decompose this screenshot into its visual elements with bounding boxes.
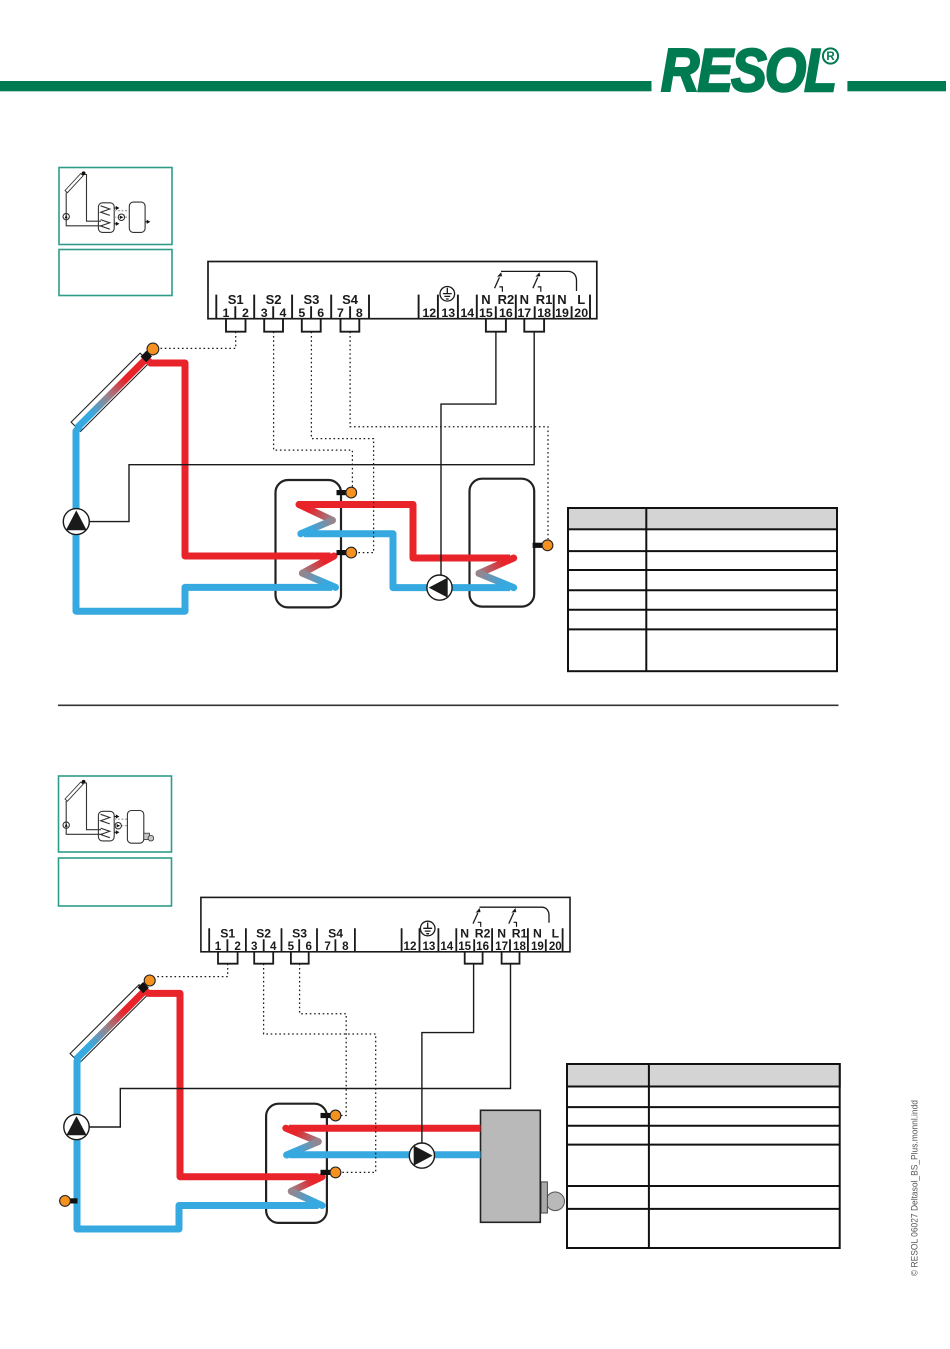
pump R2 loading circuit (bottom system) [409,1143,434,1168]
svg-text:N: N [520,292,529,307]
mini collector (top thumbnail) [65,174,83,193]
svg-text:1: 1 [215,940,222,953]
svg-text:L: L [552,927,560,941]
svg-text:S4: S4 [342,292,359,307]
svg-text:12: 12 [404,940,417,953]
sensor return pipe (bottom system) [70,1198,78,1203]
scheme code box (bottom system, empty) [59,858,172,906]
mini flow pipe (top thumbnail) [84,175,102,222]
thumbnail mini schematic (bottom system) [63,782,154,843]
svg-text:R: R [826,51,835,63]
svg-text:17: 17 [517,306,531,320]
mini tank lower coil (bottom thumbnail) [101,828,110,838]
terminal group labels S1 S2 S3 S4 / N R2 N R1 N L (top strip) [228,292,585,307]
svg-text:19: 19 [531,940,544,953]
legend table (top system) [568,508,837,671]
svg-text:16: 16 [499,306,513,320]
solar flow pipe collector to tank 1 lower coil (red, top system) [145,358,330,556]
collector (top system) [71,353,149,431]
sensor S4 tank 2 (top system) [533,543,543,548]
sensor S2 tank middle (bottom system) [321,1170,331,1175]
svg-text:13: 13 [441,306,455,320]
svg-text:14: 14 [440,940,453,953]
sensor S1 collector (top system) [143,354,149,360]
mini flow pipe (bottom thumbnail) [84,783,102,830]
tank lower heat-exchanger coil (bottom system) [291,1177,322,1192]
svg-text:N: N [497,927,506,941]
svg-text:18: 18 [537,306,551,320]
svg-text:RESOL: RESOL [661,37,835,104]
svg-text:L: L [577,292,585,307]
svg-text:6: 6 [305,940,312,953]
svg-text:6: 6 [317,306,324,320]
svg-text:3: 3 [261,306,268,320]
svg-text:1: 1 [223,306,230,320]
pump R2 transfer circuit (top system) [427,575,452,600]
sensor lead S2 to tank lower sensor (bottom system) [264,964,376,1173]
svg-text:N: N [460,927,469,941]
tank 1 upper heat-exchanger coil [299,505,332,521]
svg-text:2: 2 [242,306,249,320]
mini transfer pump (top thumbnail) [118,214,124,220]
transfer flow pipe tank 1 upper coil to tank 2 coil (red, top system) [298,505,511,559]
relay contacts R2/R1 internal wiring (top strip) [495,271,577,291]
mini transfer lines (bottom thumbnail) [114,819,127,826]
collector (bottom system) [70,985,148,1063]
svg-text:20: 20 [574,306,588,320]
sensor S1 collector (bottom system) [140,985,146,991]
sensor lead S4 to tank 2 sensor (top system) [350,332,548,540]
sensor lead S2 to tank 1 upper sensor (top system) [274,332,353,487]
svg-text:S1: S1 [220,927,235,941]
mini tank 1 (top thumbnail) [98,203,114,233]
svg-text:R1: R1 [536,292,553,307]
storage tank 2 (top system) [470,479,535,607]
transfer return pipe tank 2 to tank 1 (blue, top system) [304,534,510,588]
mini return pipe (top thumbnail) [66,193,103,226]
scheme thumbnail box (top system) [59,168,172,245]
mini solar pump (top thumbnail) [63,213,69,219]
mini tank 2 (top thumbnail) [129,202,145,232]
controller terminal strip (bottom system) [201,897,570,951]
svg-text:8: 8 [356,306,363,320]
svg-text:2: 2 [234,940,240,953]
svg-text:5: 5 [288,940,295,953]
section divider rule [58,704,839,706]
mini collector (bottom thumbnail) [65,782,83,801]
svg-text:R1: R1 [512,927,528,941]
terminal numbers 1-8, 12-20 (top strip) [223,306,589,320]
solar return pipe tank to collector (blue, bottom system) [77,1059,319,1229]
svg-text:8: 8 [342,940,349,953]
mini transfer lines (top thumbnail) [114,211,129,218]
relay R1 cable to solar pump (bottom system) [90,964,511,1127]
svg-text:19: 19 [555,306,569,320]
mini tank 1 lower coil (top thumbnail) [101,220,110,230]
solar return pipe tank 1 to collector (blue, top system) [76,426,332,611]
svg-text:N: N [533,927,542,941]
scheme thumbnail box (bottom system) [59,776,172,852]
sensor lead S1 collector sensor (bottom system) [155,964,228,977]
sensor lead S3 to tank 1 lower sensor (top system) [311,332,373,553]
svg-text:N: N [481,292,490,307]
boiler / heat exchanger unit (bottom system) [546,1192,565,1211]
storage tank (bottom system) [266,1104,327,1223]
svg-text:14: 14 [460,306,474,320]
scheme code box (top system, empty) [59,250,172,296]
mini return pipe (bottom thumbnail) [66,801,103,834]
svg-text:3: 3 [251,940,258,953]
thumbnail mini schematic (top system) [63,174,145,233]
sensor lead S3 to tank upper sensor (bottom system) [300,964,347,1116]
pump R1 solar circuit (top system) [63,509,89,535]
svg-text:17: 17 [495,940,508,953]
header green rule left segment [0,81,652,91]
sensor lead S1 collector sensor (top system) [160,332,236,349]
svg-text:4: 4 [270,940,277,953]
mini tank upper coil (bottom thumbnail) [101,814,110,824]
mini tank (bottom thumbnail) [98,811,114,841]
terminal group labels S1 S2 S3 S4 / N R2 N R1 N L (bottom strip) [220,927,559,941]
terminal numbers 1-8, 12-20 (bottom strip) [215,940,562,953]
sensor S3 tank 1 middle (top system) [337,550,347,555]
svg-text:15: 15 [458,940,471,953]
svg-text:S2: S2 [256,927,271,941]
mini tank 1 upper coil (top thumbnail) [101,206,110,216]
terminal pair brackets (top strip) [226,319,544,332]
flow pipe tank upper coil to boiler (red, bottom system) [289,1125,481,1132]
svg-text:13: 13 [422,940,435,953]
protective earth symbol terminal 13 (bottom strip) [420,921,435,936]
mini boiler burner (bottom thumbnail) [144,833,150,839]
tank 2 heat-exchanger coil [479,558,514,573]
header green rule right segment [847,81,946,91]
sensor S2 tank 1 top (top system) [337,490,347,495]
controller terminal strip (top system) [208,262,597,319]
RESOL logo registered trademark symbol [823,48,838,63]
sensor S3 tank top (bottom system) [321,1113,331,1118]
solar flow pipe collector to tank lower coil (red, bottom system) [144,990,318,1177]
svg-text:N: N [557,292,566,307]
terminal pair brackets (bottom strip) [218,952,520,964]
svg-text:R2: R2 [475,927,491,941]
relay R2 cable to transfer pump (top system) [441,332,496,575]
svg-text:© RESOL 06027 Deltasol_BS_Plus: © RESOL 06027 Deltasol_BS_Plus.monnl.ind… [910,1100,920,1276]
relay R1 cable to solar pump (top system) [90,332,534,522]
return pipe boiler to tank upper coil (blue, bottom system) [290,1151,481,1158]
legend table (bottom system) [567,1064,840,1248]
svg-text:S3: S3 [292,927,307,941]
svg-text:R2: R2 [498,292,515,307]
svg-text:20: 20 [549,940,562,953]
relay contacts R2/R1 internal wiring (bottom strip) [473,907,549,927]
svg-text:16: 16 [476,940,489,953]
pump R1 solar circuit (bottom system) [64,1114,89,1139]
storage tank 1 (top system) [276,480,342,607]
tank 1 lower heat-exchanger coil [302,556,334,573]
svg-text:7: 7 [337,306,344,320]
svg-text:S4: S4 [328,927,343,941]
svg-text:15: 15 [479,306,493,320]
svg-text:S3: S3 [303,292,319,307]
tank upper heat-exchanger coil (bottom system) [286,1128,318,1141]
svg-text:S2: S2 [266,292,282,307]
svg-text:7: 7 [324,940,330,953]
protective earth symbol terminal 13 (top strip) [440,287,455,302]
relay R2 cable to loading pump (bottom system) [422,964,474,1143]
mini loading pump (bottom thumbnail) [115,823,121,829]
svg-text:12: 12 [422,306,436,320]
svg-text:18: 18 [513,940,526,953]
mini solar pump (bottom thumbnail) [63,822,69,828]
svg-text:5: 5 [298,306,305,320]
mini boiler vessel (bottom thumbnail) [127,811,143,844]
svg-text:S1: S1 [228,292,244,307]
svg-text:4: 4 [280,306,287,320]
